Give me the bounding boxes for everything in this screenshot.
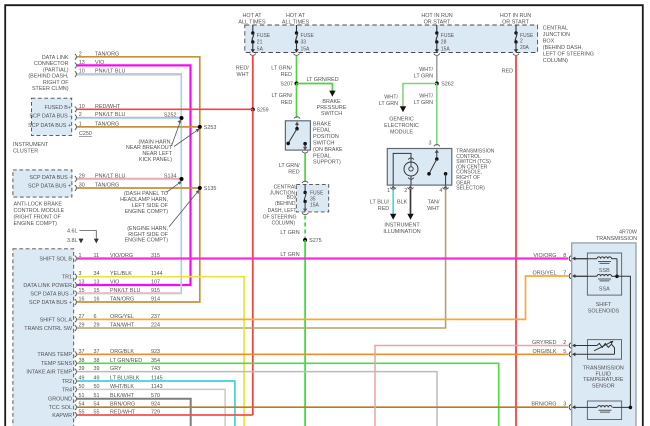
svg-text:SCP DATA BUS -: SCP DATA BUS - xyxy=(30,291,72,297)
PCM pin SHIFT SOL B xyxy=(39,253,160,262)
wire WHT/LT GRN branch to generic electronic module xyxy=(403,84,437,107)
temperature sensor inner box xyxy=(588,340,622,360)
svg-text:1: 1 xyxy=(387,188,390,194)
svg-text:13: 13 xyxy=(79,280,85,286)
svg-text:RED: RED xyxy=(281,100,292,106)
label central junction box (top right) xyxy=(543,26,594,65)
cluster pin 10 xyxy=(75,107,77,113)
fuse 21 5A xyxy=(250,25,271,55)
wire LT GRN S275 to bottom xyxy=(304,240,306,426)
DLC pin 2 xyxy=(75,54,77,60)
svg-text:RED/: RED/ xyxy=(236,66,249,72)
wire TAN/ORG DLC pin 2 to S253 to PCM pin 16 xyxy=(77,57,200,302)
svg-text:CENTRAL: CENTRAL xyxy=(543,26,568,32)
svg-text:CONNECTOR: CONNECTOR xyxy=(34,61,69,67)
splice S275 xyxy=(303,238,307,242)
svg-text:LT GRN/: LT GRN/ xyxy=(272,93,293,99)
note dash panel to headlamp harn xyxy=(120,191,169,215)
wire WHT/LT GRN S262 down to TCS pin 3 xyxy=(436,84,438,146)
svg-text:TR4: TR4 xyxy=(62,387,72,393)
wire WHT/LT GRN fuse 28 to S262 xyxy=(436,56,438,84)
svg-text:TEMP SENS: TEMP SENS xyxy=(41,361,72,367)
solenoid SSB xyxy=(575,257,617,276)
svg-text:RED: RED xyxy=(288,169,299,175)
note 4.6L / 3.8L xyxy=(67,229,99,244)
note main harn near breakout xyxy=(126,139,173,163)
svg-text:S134: S134 xyxy=(164,173,177,179)
svg-text:JUNCTION: JUNCTION xyxy=(543,32,570,38)
wire solenoid common feed xyxy=(617,276,630,407)
TCC solenoid inner box xyxy=(587,401,621,420)
svg-text:ENGINE COMPT): ENGINE COMPT) xyxy=(14,221,58,227)
DLC pin 10 xyxy=(75,71,77,77)
svg-text:SCP DATA BUS +: SCP DATA BUS + xyxy=(28,184,71,190)
svg-text:ILLUMINATION: ILLUMINATION xyxy=(383,229,420,235)
svg-text:KICK PANEL): KICK PANEL) xyxy=(139,157,172,163)
svg-text:S135: S135 xyxy=(204,186,217,192)
svg-text:WHT/: WHT/ xyxy=(419,93,433,99)
svg-text:29: 29 xyxy=(79,323,85,329)
svg-text:HOT IN RUN: HOT IN RUN xyxy=(421,13,452,19)
transmission pin 8 xyxy=(533,253,587,261)
svg-text:HOT IN RUN: HOT IN RUN xyxy=(500,13,531,19)
svg-text:HOT AT: HOT AT xyxy=(243,13,263,19)
PCM pin TRANS TEMP xyxy=(37,349,160,358)
wire RED fuse 2 to bottom xyxy=(515,56,517,426)
svg-text:SHIFT SOL B: SHIFT SOL B xyxy=(39,256,72,262)
note engine harn right side xyxy=(125,226,169,244)
wire LT GRN/RED switch to CJB fuse 35 xyxy=(304,154,306,183)
svg-text:S207: S207 xyxy=(280,82,293,88)
TCS pin 4 exit xyxy=(439,185,448,194)
svg-text:POSITION: POSITION xyxy=(313,134,339,140)
label anti-lock brake control module xyxy=(14,201,65,227)
thermistor xyxy=(575,341,615,355)
svg-text:LT GRN: LT GRN xyxy=(414,100,433,106)
shift solenoids inner box xyxy=(587,253,621,295)
svg-text:SUPPORT): SUPPORT) xyxy=(313,160,341,166)
svg-text:PNK/LT BLU: PNK/LT BLU xyxy=(110,288,140,294)
svg-text:VIO: VIO xyxy=(110,280,119,286)
splice S252 xyxy=(180,116,184,120)
PCM pin TCC SOL xyxy=(49,402,160,411)
4R70W transmission box xyxy=(572,243,636,426)
svg-text:2: 2 xyxy=(563,340,566,346)
svg-text:3.8L: 3.8L xyxy=(67,238,78,244)
ABS pin 29 xyxy=(75,176,77,182)
svg-text:FUSE: FUSE xyxy=(257,33,271,39)
PCM pin GROUND xyxy=(48,393,160,402)
label transmission control switch xyxy=(456,149,494,192)
svg-text:5: 5 xyxy=(563,349,566,355)
svg-text:CLUSTER: CLUSTER xyxy=(13,149,38,155)
wire LT GRN/RED S207 down to brake pedal position switch xyxy=(296,84,298,119)
svg-text:LT GRN/RED: LT GRN/RED xyxy=(307,77,339,83)
svg-text:15: 15 xyxy=(94,288,100,294)
wire LT GRN/RED branch to brake pressure switch xyxy=(297,84,333,92)
svg-text:2: 2 xyxy=(404,188,407,194)
PCM pin TR4 xyxy=(62,384,163,393)
svg-text:(BEHIND DASH,: (BEHIND DASH, xyxy=(28,74,69,80)
svg-text:TAN/ORG: TAN/ORG xyxy=(110,297,134,303)
label HOT IN RUN OR START (fuse 2) xyxy=(500,13,531,26)
label brake pedal position switch xyxy=(313,121,343,165)
wire RED/WHT S259 down to KAPWR row xyxy=(252,110,254,416)
wire PNK/LT BLU ABS to S134 xyxy=(77,177,182,179)
svg-text:RIGHT OF: RIGHT OF xyxy=(43,80,69,86)
svg-text:GRY/RED: GRY/RED xyxy=(532,340,557,346)
svg-text:SELECTOR): SELECTOR) xyxy=(456,186,485,192)
splice S134 xyxy=(180,177,184,181)
svg-text:RED/WHT: RED/WHT xyxy=(95,104,121,110)
svg-text:SHIFT SOL A: SHIFT SOL A xyxy=(40,317,73,323)
wire BLK pin 2 to instrument illumination xyxy=(410,190,412,214)
svg-text:PEDAL: PEDAL xyxy=(313,128,331,134)
svg-text:WHT: WHT xyxy=(427,206,440,212)
svg-text:(BEHIND: (BEHIND xyxy=(275,201,296,207)
svg-text:4: 4 xyxy=(439,188,442,194)
svg-text:BRN/ORG: BRN/ORG xyxy=(531,402,556,408)
PCM pin TR1 xyxy=(62,271,163,280)
wire TAN/WHT pin 4 down to PCM trans cntrl sw row xyxy=(77,190,446,329)
svg-text:SSA: SSA xyxy=(599,287,610,293)
svg-text:LT GRN/: LT GRN/ xyxy=(279,163,300,169)
svg-text:FUSE: FUSE xyxy=(441,33,455,39)
transmission pin 7 xyxy=(533,271,588,279)
svg-text:TR2: TR2 xyxy=(62,379,72,385)
fuse 33 15A xyxy=(294,25,315,55)
PCM pin INTAKE AIR TEMP xyxy=(26,366,160,375)
svg-text:DASH, LEFT: DASH, LEFT xyxy=(268,208,297,214)
wire GRY/RED from bottom to transmission pin 2 xyxy=(375,346,568,426)
svg-text:HOT AT: HOT AT xyxy=(286,13,306,19)
cluster pin 1 xyxy=(75,124,77,130)
junction solenoid common xyxy=(615,275,619,279)
svg-text:15A: 15A xyxy=(441,46,451,52)
svg-text:BRAKE: BRAKE xyxy=(313,121,332,127)
wire RED/WHT KAPWR to red vertical xyxy=(77,414,253,416)
fuse 28 15A xyxy=(434,25,455,55)
svg-text:TAN/ORG: TAN/ORG xyxy=(95,51,119,57)
svg-text:8: 8 xyxy=(563,253,566,259)
svg-text:ELECTRONIC: ELECTRONIC xyxy=(384,123,419,129)
svg-text:TAN/: TAN/ xyxy=(428,200,440,206)
svg-text:SCP DATA BUS +: SCP DATA BUS + xyxy=(29,300,72,306)
wire BRN/ORG PCM to transmission pin 3 xyxy=(77,406,568,408)
svg-text:BLK: BLK xyxy=(397,200,408,206)
anti-lock brake control module box xyxy=(13,170,72,197)
label HOT IN RUN OR START (fuse 28) xyxy=(421,13,452,26)
label instrument cluster xyxy=(13,142,49,155)
svg-text:STEER CLMN): STEER CLMN) xyxy=(32,86,69,92)
TCS pin 1 exit xyxy=(387,185,396,194)
svg-text:TAN/WHT: TAN/WHT xyxy=(110,323,135,329)
svg-text:TAN/ORG: TAN/ORG xyxy=(95,183,119,189)
solenoid SSA xyxy=(575,274,617,292)
cluster pin 2 xyxy=(75,115,77,121)
svg-text:TRANS CNTRL SW: TRANS CNTRL SW xyxy=(24,326,73,332)
svg-text:SCP DATA BUS -: SCP DATA BUS - xyxy=(29,114,71,120)
svg-text:15: 15 xyxy=(79,288,85,294)
svg-text:C250: C250 xyxy=(79,131,92,137)
label instrument illumination xyxy=(383,222,420,235)
svg-text:13: 13 xyxy=(94,280,100,286)
svg-text:TRANSMISSION: TRANSMISSION xyxy=(596,236,637,242)
wire GRY INTAKE AIR TEMP to bottom xyxy=(77,372,437,426)
svg-text:ENGINE COMPT): ENGINE COMPT) xyxy=(125,209,169,215)
svg-text:TEMPERATURE: TEMPERATURE xyxy=(583,377,624,383)
svg-text:COLUMN): COLUMN) xyxy=(543,58,568,64)
wire ORG/BLK PCM to transmission pin 5 xyxy=(77,353,568,355)
svg-text:BOX: BOX xyxy=(543,39,555,45)
arrow to S252 xyxy=(172,122,181,146)
splice S262 xyxy=(435,82,439,86)
svg-text:S262: S262 xyxy=(441,82,454,88)
svg-text:DATA LINK POWER: DATA LINK POWER xyxy=(23,283,72,289)
svg-text:LT GRN: LT GRN xyxy=(414,74,433,80)
svg-text:29: 29 xyxy=(94,323,100,329)
PCM pin TRANS CNTRL SW xyxy=(24,323,160,332)
wire PNK/LT BLU DLC pin 10 to S252 to PCM pin 15 xyxy=(77,74,182,293)
splice S259 xyxy=(251,108,255,112)
svg-text:224: 224 xyxy=(151,323,160,329)
wire TAN/ORG cluster to S253 xyxy=(77,126,200,128)
instrument cluster box xyxy=(32,98,72,135)
PCM pin SCP DATA BUS - xyxy=(30,288,160,297)
svg-text:28: 28 xyxy=(441,39,447,45)
wire BLK/WHT GROUND to bottom xyxy=(77,399,191,426)
TCS pin 2 exit xyxy=(404,185,413,194)
label central junction box (left of fuse 35) xyxy=(263,185,298,227)
label HOT AT ALL TIMES (fuse 33) xyxy=(282,13,310,26)
wire WHT/BLK TR4 to bottom xyxy=(77,389,225,426)
wire RED/WHT from fuse 21 down to S259 xyxy=(252,56,254,110)
svg-text:S252: S252 xyxy=(164,112,177,118)
svg-text:PNK/LT BLU: PNK/LT BLU xyxy=(95,174,125,180)
svg-text:LEFT OF STEERING: LEFT OF STEERING xyxy=(543,52,594,58)
svg-text:PNK/LT BLU: PNK/LT BLU xyxy=(95,69,125,75)
svg-text:33: 33 xyxy=(301,39,307,45)
svg-text:WHT: WHT xyxy=(237,72,250,78)
svg-text:TCC SOL: TCC SOL xyxy=(49,405,72,411)
PCM pin TEMP SENS xyxy=(41,358,160,367)
ABS pin 30 xyxy=(75,185,77,191)
lamp TCS illumination xyxy=(393,153,411,185)
PCM pin SCP DATA BUS + xyxy=(29,297,160,306)
svg-text:7: 7 xyxy=(563,271,566,277)
svg-text:2: 2 xyxy=(520,38,523,44)
svg-text:20A: 20A xyxy=(520,45,530,51)
PCM pin SHIFT SOL A xyxy=(40,314,160,323)
central junction box (top, dashed) xyxy=(245,25,538,53)
splice S253 xyxy=(198,125,202,129)
svg-text:SWITCH: SWITCH xyxy=(321,111,342,117)
svg-text:KAPWR: KAPWR xyxy=(52,413,72,419)
label shift solenoids xyxy=(588,302,620,315)
arrow to S135 xyxy=(169,191,198,227)
svg-text:LT GRN: LT GRN xyxy=(280,230,299,236)
svg-text:S259: S259 xyxy=(257,108,269,114)
data link connector labels xyxy=(28,55,69,92)
svg-text:(BEHIND DASH,: (BEHIND DASH, xyxy=(543,45,584,51)
wire LT GRN/RED from fuse 33 down to S207 xyxy=(296,56,298,84)
svg-text:3: 3 xyxy=(563,402,566,408)
wire YEL/BLK TR1 to bottom xyxy=(77,277,244,426)
wire LT GRN/RED TEMP SENS to bottom xyxy=(77,363,499,426)
svg-text:LT GRN/: LT GRN/ xyxy=(271,66,292,72)
svg-text:PNK/LT BLU: PNK/LT BLU xyxy=(95,112,125,118)
wire VIO/ORG PCM to transmission pin 8 xyxy=(77,257,568,259)
svg-text:VIO: VIO xyxy=(95,60,104,66)
central junction box (fuse 35, dashed) xyxy=(296,181,328,214)
wire LT BLU/RED pin 1 to instrument illumination xyxy=(392,190,394,214)
svg-text:LT GRN: LT GRN xyxy=(379,101,398,107)
wire ORG/YEL PCM to transmission pin 7 xyxy=(77,276,568,319)
svg-text:SENSOR: SENSOR xyxy=(592,383,615,389)
label generic electronic module xyxy=(384,117,419,136)
DLC pin 13 xyxy=(75,63,77,69)
svg-text:5A: 5A xyxy=(257,46,264,52)
label HOT AT ALL TIMES (fuse 21) xyxy=(238,13,266,26)
svg-text:16: 16 xyxy=(94,297,100,303)
wire TAN/ORG ABS to S135 xyxy=(77,187,200,189)
wire LT GRN dashed to S275 xyxy=(304,216,306,241)
PCM pin DATA LINK POWER xyxy=(23,280,160,289)
svg-text:GROUND: GROUND xyxy=(48,397,72,403)
svg-text:TR1: TR1 xyxy=(62,275,72,281)
svg-text:ENGINE COMPT): ENGINE COMPT) xyxy=(125,238,169,244)
svg-text:RED: RED xyxy=(281,72,292,78)
arrow to S134 xyxy=(167,182,181,192)
svg-text:SCP DATA BUS +: SCP DATA BUS + xyxy=(28,123,71,129)
transmission pin 2 xyxy=(532,340,575,348)
TCC solenoid coil xyxy=(575,406,632,413)
svg-text:RED: RED xyxy=(378,206,389,212)
svg-text:MODULE: MODULE xyxy=(390,129,413,135)
svg-text:ALL TIMES: ALL TIMES xyxy=(282,19,310,25)
wire RED/WHT cluster to S259 xyxy=(77,108,253,110)
svg-text:S275: S275 xyxy=(309,238,322,244)
svg-text:ORG/YEL: ORG/YEL xyxy=(533,271,557,277)
transmission control switch (TCS) xyxy=(387,141,452,186)
label transmission fluid temperature sensor xyxy=(583,365,624,389)
powertrain control module box xyxy=(13,249,74,426)
svg-text:16: 16 xyxy=(79,297,85,303)
arrow to S253 xyxy=(174,130,198,147)
svg-text:914: 914 xyxy=(151,297,160,303)
svg-text:15A: 15A xyxy=(301,46,311,52)
transmission pin 5 xyxy=(533,349,576,357)
svg-text:SHIFT: SHIFT xyxy=(596,302,612,308)
svg-text:SOLENOIDS: SOLENOIDS xyxy=(588,309,620,315)
svg-text:SCP DATA BUS -: SCP DATA BUS - xyxy=(29,175,71,181)
wire PNK/LT BLU cluster to S252 xyxy=(77,116,182,118)
brake pedal position switch xyxy=(285,117,310,153)
svg-text:RED: RED xyxy=(502,69,513,75)
svg-text:107: 107 xyxy=(151,280,160,286)
svg-text:3: 3 xyxy=(429,141,432,147)
svg-text:CONTROL MODULE: CONTROL MODULE xyxy=(14,208,65,214)
svg-text:LT GRN: LT GRN xyxy=(280,252,299,258)
svg-text:ORG/BLK: ORG/BLK xyxy=(533,349,557,355)
svg-text:15A: 15A xyxy=(310,203,320,209)
svg-text:INSTRUMENT: INSTRUMENT xyxy=(384,222,420,228)
splice S135 xyxy=(198,186,202,190)
svg-text:WHT/: WHT/ xyxy=(419,67,433,73)
PCM pin KAPWR xyxy=(52,410,160,419)
svg-text:ANTI-LOCK BRAKE: ANTI-LOCK BRAKE xyxy=(14,201,63,207)
svg-text:COLUMN): COLUMN) xyxy=(272,221,296,227)
svg-text:4.6L: 4.6L xyxy=(67,229,78,235)
svg-text:(PARTIAL): (PARTIAL) xyxy=(43,67,69,73)
svg-text:SWITCH: SWITCH xyxy=(313,141,334,147)
svg-text:INTAKE AIR TEMP: INTAKE AIR TEMP xyxy=(26,370,72,376)
wire LT BLU/BLK TR2 to bottom xyxy=(77,381,235,426)
svg-text:TRANS TEMP: TRANS TEMP xyxy=(37,352,72,358)
svg-text:WHT/: WHT/ xyxy=(384,94,398,100)
label brake pressure switch xyxy=(317,99,347,117)
svg-text:21: 21 xyxy=(257,39,263,45)
wire VIO DLC pin 13 to PCM pin 13 xyxy=(77,65,191,285)
svg-text:TAN/ORG: TAN/ORG xyxy=(95,121,119,127)
svg-text:OR START: OR START xyxy=(502,19,529,25)
svg-text:S253: S253 xyxy=(204,125,217,131)
splice S207 xyxy=(295,82,299,86)
svg-text:GENERIC: GENERIC xyxy=(389,117,414,123)
svg-text:915: 915 xyxy=(151,288,160,294)
svg-text:PEDAL: PEDAL xyxy=(313,153,331,159)
svg-text:ALL TIMES: ALL TIMES xyxy=(238,19,266,25)
svg-text:INSTRUMENT: INSTRUMENT xyxy=(13,142,49,148)
svg-text:(RIGHT FRONT OF: (RIGHT FRONT OF xyxy=(14,214,62,220)
PCM pin TR2 xyxy=(62,376,163,385)
svg-text:4R70W: 4R70W xyxy=(619,230,638,236)
svg-text:LT BLU/: LT BLU/ xyxy=(370,200,390,206)
fuse 2 20A xyxy=(513,25,534,55)
svg-text:VIO/ORG: VIO/ORG xyxy=(533,253,556,259)
svg-text:DATA LINK: DATA LINK xyxy=(42,55,69,61)
svg-text:OR START: OR START xyxy=(424,19,451,25)
svg-text:FUSE: FUSE xyxy=(301,33,315,39)
transmission pin 3 xyxy=(531,402,575,410)
svg-text:SSB: SSB xyxy=(599,268,610,274)
svg-text:FUSED B+: FUSED B+ xyxy=(44,105,71,111)
svg-text:(ON BRAKE: (ON BRAKE xyxy=(313,147,343,153)
